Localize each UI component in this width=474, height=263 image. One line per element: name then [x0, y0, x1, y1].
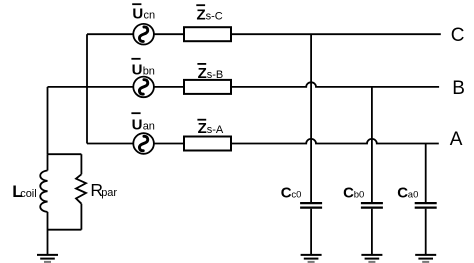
wire: top bar of L/R parallel pair [48, 153, 82, 155]
label U_cn with overbar [132, 3, 155, 22]
label C_b0 [343, 185, 364, 202]
AC source U_an [133, 133, 154, 154]
label L_coil [12, 182, 37, 201]
label R_par [90, 180, 117, 200]
wire: vertical drop from line C to capacitor Cc0 [310, 34, 312, 202]
wire: left branch down to inductor [47, 154, 49, 170]
wire: phase line A with hops over verticals C and B [231, 139, 439, 144]
svg-text:Z: Z [197, 6, 206, 23]
capacitor C_b0 [361, 203, 383, 208]
svg-text:C: C [343, 185, 354, 202]
svg-text:c0: c0 [291, 190, 301, 201]
ground under L/R [37, 255, 58, 262]
wire: phase line B with hop over vertical C [231, 82, 439, 87]
svg-text:C: C [451, 25, 465, 46]
label Z_s-B with overbar [197, 63, 223, 82]
wire: neutral vertical from row C to row A (x=87) [86, 34, 88, 143]
svg-text:s-B: s-B [207, 69, 224, 81]
svg-text:cn: cn [144, 9, 156, 21]
wire: bottom bar of L/R parallel pair [48, 229, 82, 231]
impedance Z_s-A [184, 137, 231, 151]
svg-text:A: A [450, 129, 463, 150]
svg-text:an: an [143, 121, 155, 133]
wire: phase line C [231, 33, 441, 35]
wire: capacitor Cc0 to ground [310, 209, 312, 255]
svg-text:C: C [281, 185, 292, 202]
wire: right branch down to resistor [80, 154, 82, 174]
label U_bn with overbar [131, 58, 155, 79]
svg-text:a0: a0 [408, 190, 419, 201]
svg-text:par: par [101, 187, 117, 199]
wire: row B between source and impedance [154, 86, 184, 88]
label C_a0 [397, 185, 418, 202]
wire: row C between source and impedance [154, 33, 184, 35]
svg-text:b0: b0 [354, 190, 365, 201]
svg-text:U: U [132, 117, 143, 134]
wire: neutral vertical from row B down to L/R (x=47.5) [47, 87, 49, 154]
capacitor C_a0 [415, 203, 437, 208]
svg-text:s-C: s-C [206, 10, 223, 22]
svg-text:C: C [397, 185, 408, 202]
label C_c0 [281, 185, 302, 202]
svg-text:s-A: s-A [207, 124, 224, 136]
wire: vertical drop from line A to capacitor Ca0 [425, 144, 427, 203]
ground under Cc0 [301, 255, 322, 262]
svg-text:U: U [132, 62, 143, 79]
AC source U_cn [133, 24, 154, 45]
svg-text:B: B [452, 78, 465, 99]
wire: inductor bottom down to ground [47, 212, 49, 255]
ground under Ca0 [415, 255, 436, 262]
impedance Z_s-B [184, 80, 231, 94]
AC source U_bn [133, 77, 154, 98]
resistor R_par [76, 174, 86, 203]
wire: vertical drop from line B to capacitor Cb0 [371, 87, 373, 202]
label Z_s-C with overbar [196, 4, 222, 23]
svg-text:coil: coil [20, 188, 37, 200]
wire: row B left segment [48, 86, 134, 88]
svg-text:Z: Z [198, 65, 207, 82]
svg-text:U: U [132, 5, 143, 22]
inductor L_coil [40, 171, 47, 212]
wire: row A left segment [87, 143, 133, 145]
ground under Cb0 [361, 255, 382, 262]
wire: resistor bottom down to bottom bar [80, 204, 82, 230]
wire: capacitor Ca0 to ground [425, 209, 427, 255]
svg-text:Z: Z [198, 120, 207, 137]
wire: row A between source and impedance [154, 143, 184, 145]
wire: capacitor Cb0 to ground [371, 209, 373, 255]
label Z_s-A with overbar [197, 119, 223, 137]
capacitor C_c0 [300, 203, 322, 208]
svg-text:bn: bn [143, 66, 155, 78]
impedance Z_s-C [184, 27, 231, 41]
wire: row C left segment [87, 33, 133, 35]
label U_an with overbar [131, 112, 155, 133]
